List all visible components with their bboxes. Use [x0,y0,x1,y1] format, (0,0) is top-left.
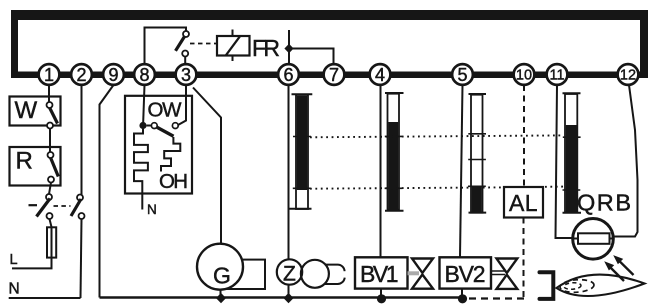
control unit frame top bar [11,10,648,20]
terminal 12 [618,64,639,85]
dotted timing line lower [310,187,563,189]
wire terminal 8 to preheater node [143,85,144,122]
flame outline [557,275,645,296]
svg-text:1: 1 [44,65,54,85]
main switch left pole contacts [46,194,52,200]
svg-text:N: N [147,202,157,217]
program bar terminal 11 [563,92,581,94]
svg-text:Z: Z [283,263,296,286]
terminal 9 [103,64,124,85]
program bar terminal 6 [292,93,313,95]
svg-text:4: 4 [375,65,385,85]
dashed link contact to FR coil [190,43,216,45]
fuel valve BV2 box [440,257,492,288]
bottom bus dashed [469,297,524,299]
svg-text:BV1: BV1 [360,261,399,287]
terminal 7 [324,64,345,85]
burner mouth bracket [540,272,554,299]
svg-text:R: R [16,148,33,175]
main switch linkage dashed [54,205,71,207]
thermostat W switch contacts [47,102,53,108]
terminal 11 [547,64,568,85]
heater element OH meander [134,129,148,210]
dashed wire AL to bus [523,218,525,298]
node preheater junction [139,122,146,129]
svg-text:W: W [15,97,38,124]
flame detector QRB circle [573,219,614,260]
svg-text:2: 2 [76,65,86,85]
thermostat OW contact left [147,125,152,127]
alarm AL box [504,187,543,218]
control unit frame right bar [640,10,648,78]
FR contact arm [176,37,185,51]
wire switch to fuse to L [12,219,52,268]
light arrow 2 [609,266,624,281]
svg-text:7: 7 [329,65,339,85]
fuel valve BV1 box [355,257,408,288]
motor fan rect [225,260,265,289]
svg-text:3: 3 [181,65,191,85]
thermostat W box [10,97,61,126]
relay coil FR top stub [232,30,234,62]
terminal 8 [134,64,155,85]
valve BV1 connector [408,271,420,275]
svg-text:OW: OW [148,99,183,122]
wire terminal 11 to QRB [556,85,573,238]
wire Z to bus [288,285,290,298]
program bar terminal 5 [469,93,487,95]
thermostat R switch contacts [48,152,54,158]
program bar terminal 4 [385,92,404,94]
main switch left pole arm [37,199,51,217]
light arrow 1 [619,260,634,275]
node BV1 junction [377,294,386,303]
terminal 2 [71,64,92,85]
svg-text:10: 10 [516,68,532,84]
oil preheater box [125,96,192,194]
main switch handle tick [29,204,38,206]
svg-text:6: 6 [283,65,293,85]
terminal strip bus bar [11,72,648,79]
main switch right pole arm [71,199,81,216]
wire terminal 4 to valve BV1 [380,85,382,257]
thermostat OW contact right [172,123,178,129]
flame inner dashed [560,279,595,294]
terminal 5 [452,64,473,85]
wire terminal 12 to QRB [614,85,638,237]
svg-text:12: 12 [620,68,636,84]
svg-text:9: 9 [108,65,118,85]
wire terminal 1 to W [48,85,50,102]
valve BV2 symbol [497,259,518,274]
bimetal actuator step [161,137,180,172]
thermostat R switch arm [51,158,59,177]
svg-text:BV2: BV2 [445,261,486,287]
terminal 1 [39,64,60,85]
wire terminal 9 to bottom bus [100,85,114,298]
relay coil FR diagonal [226,36,241,56]
node FR junction [284,44,293,54]
svg-text:OH: OH [159,170,188,193]
wire terminal 2 down [81,85,83,195]
wire motor G to bus [220,290,222,298]
motor G circle [197,244,243,290]
ignition transformer Z circle [277,259,302,284]
node BV2 junction [458,294,467,303]
thermostat OW arm [157,127,174,136]
node G junction [216,293,226,303]
svg-text:5: 5 [457,65,467,85]
ignition electrode top [326,265,345,272]
svg-text:N: N [9,281,20,298]
wire FR to terminal 6 [288,30,290,64]
wire terminal 5 to valve BV2 [460,85,463,257]
valve BV2 connector [491,271,505,275]
thermostat R box [10,147,61,186]
control unit frame left bar [11,10,18,75]
relay coil FR box [217,36,250,56]
wire terminal 6 to ignition Z [288,85,290,260]
wire BV1 to bus [380,289,382,298]
dotted timing line upper [310,135,563,137]
wire BV2 to bus [461,289,463,299]
wire terminal 3 diagonal to motor G [193,88,221,245]
svg-text:L: L [10,252,18,268]
wire W to R [49,129,51,153]
ignition electrode bottom [325,278,345,284]
ignition transformer secondary circle [301,260,329,288]
svg-text:G: G [213,263,231,289]
neutral N line [9,297,81,299]
fuse F1 [47,227,56,257]
terminal 4 [370,64,391,85]
svg-text:FR: FR [252,35,280,61]
wire FR contact to terminal 3 [184,57,186,65]
terminal 10 [514,64,535,85]
svg-text:11: 11 [549,68,564,84]
FR contact lower point [182,51,188,57]
wire terminal 3 to OW contact [178,85,186,125]
terminal 3 [176,64,197,85]
bottom bus solid [100,296,467,299]
wire right pole to N line [81,219,82,298]
terminal 6 [278,64,299,85]
flame detector QRB cell [578,233,610,244]
thermostat W switch arm [50,108,58,124]
wire FR junction to terminal 7 [289,49,334,65]
main switch right pole contacts [77,195,83,201]
svg-text:AL: AL [509,190,538,216]
svg-text:8: 8 [139,65,149,85]
dashed wire terminal 10 to AL [523,85,525,187]
svg-text:QRB: QRB [577,190,631,216]
wire R to main switch [49,183,51,195]
FR contact fixed point [183,31,189,37]
valve BV1 symbol [412,259,433,273]
node Z junction [284,293,294,303]
wire terminal 8 up and over to FR contact [145,28,187,65]
